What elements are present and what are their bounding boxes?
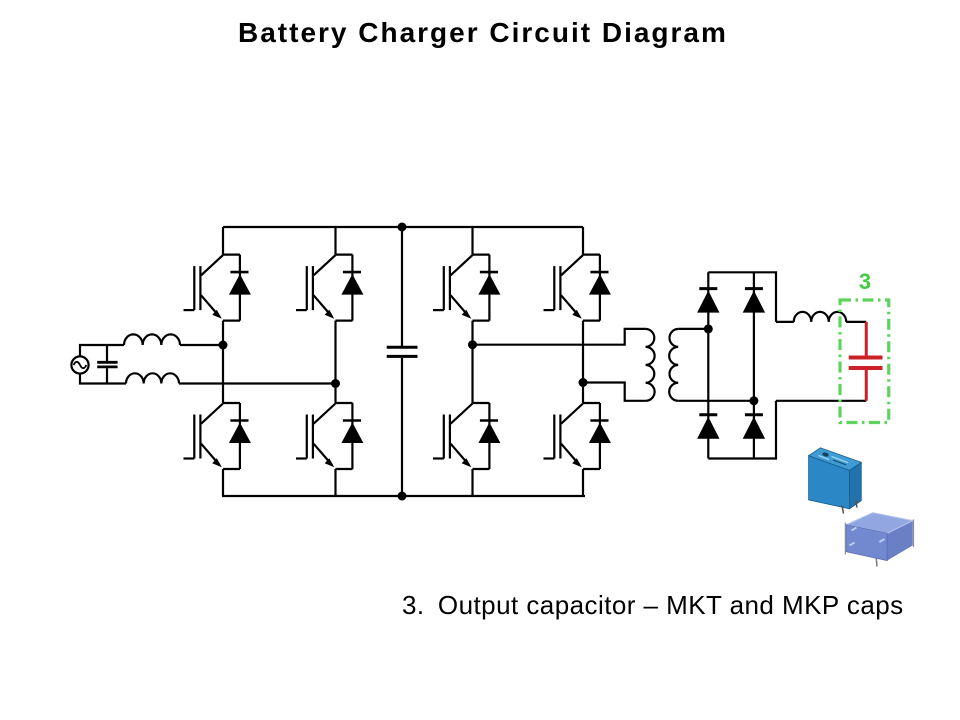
IGBT Q5 — [184, 403, 251, 469]
wire leg mid x=472.5 — [471, 321, 473, 403]
wire leg4 to transformer primary bottom — [583, 383, 646, 401]
node leg2 mid — [331, 379, 340, 388]
wire L1 to bridge leg1 — [180, 344, 223, 346]
wire secondary top to bridge — [678, 328, 708, 330]
diode D1 — [697, 289, 719, 313]
wire leg riser bottom x=472.5 — [471, 469, 473, 496]
wire bridge right leg — [753, 272, 755, 458]
IGBT Q1 — [184, 255, 251, 321]
capacitor C2 (DC link) — [387, 227, 418, 496]
diode D2 — [743, 289, 765, 313]
diode D3 — [697, 415, 719, 439]
IGBT Q7 — [433, 403, 500, 469]
inductor L1 (top input filter) — [124, 334, 180, 345]
MKT capacitor photo (blue box) — [809, 448, 862, 514]
wire leg3 to transformer primary top — [473, 329, 646, 345]
wire source bottom — [80, 374, 126, 384]
wire bridge bottom rail — [708, 401, 776, 459]
diode D4 — [743, 415, 765, 439]
node leg1 mid — [219, 341, 228, 350]
junction bottom bus / C2 — [398, 492, 407, 501]
AC source V1 — [71, 356, 88, 373]
wire top DC bus — [223, 226, 583, 228]
svg-text:3: 3 — [859, 269, 871, 294]
MKP capacitor photo (light blue box) — [845, 513, 913, 567]
wire L2 to bridge leg2 — [179, 382, 336, 384]
IGBT Q3 — [433, 255, 500, 321]
wire leg riser top x=583 — [582, 227, 584, 255]
wire leg riser bottom x=223 — [222, 469, 224, 496]
junction top bus / C2 — [398, 223, 407, 232]
wire leg mid x=583 — [582, 321, 584, 403]
wire bridge to output inductor — [776, 321, 794, 323]
wire output bottom — [776, 400, 866, 402]
wire bottom DC bus — [222, 495, 585, 497]
transformer T1 primary winding — [646, 329, 655, 401]
inductor L3 (output) — [794, 312, 847, 322]
wire leg riser bottom x=583 — [582, 469, 584, 496]
wire source top — [80, 345, 124, 356]
wire leg riser top x=335.5 — [334, 227, 336, 255]
wire secondary bottom to bridge — [678, 400, 754, 402]
wire leg mid x=335.5 — [334, 321, 336, 403]
IGBT Q2 — [296, 255, 363, 321]
node leg3 mid — [468, 340, 477, 349]
capacitor C3 (output, highlighted red) — [849, 322, 883, 401]
wire L3 to C3 — [846, 321, 866, 323]
wire leg riser bottom x=335.5 — [334, 469, 336, 496]
transformer T1 secondary winding — [669, 329, 678, 401]
inductor L2 (bottom input filter) — [126, 373, 179, 383]
wire leg mid x=223 — [222, 321, 224, 403]
wire bridge left leg — [707, 272, 709, 458]
node secondary bottom / bridge right leg — [749, 396, 758, 405]
wire leg riser top x=223 — [222, 227, 224, 255]
wire bridge top rail — [708, 272, 776, 322]
IGBT Q6 — [296, 403, 363, 469]
node leg4 mid — [579, 378, 588, 387]
IGBT Q4 — [544, 255, 611, 321]
capacitor C1 (input filter) — [97, 345, 117, 384]
highlight box 3 (green dash-dot) — [840, 300, 889, 423]
IGBT Q8 — [544, 403, 611, 469]
caption item 3 — [402, 590, 904, 621]
node secondary top / bridge left leg — [704, 324, 713, 333]
title — [238, 17, 728, 49]
wire leg riser top x=472.5 — [471, 227, 473, 255]
